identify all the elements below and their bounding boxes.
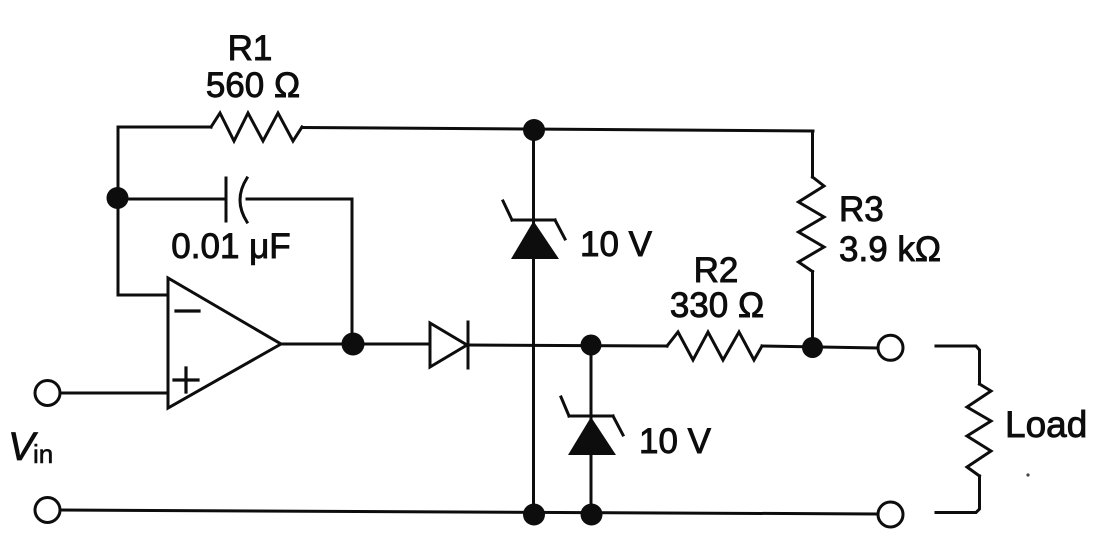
- svg-text:10 V: 10 V: [580, 225, 653, 264]
- svg-text:Load: Load: [1005, 404, 1087, 445]
- svg-text:3.9 kΩ: 3.9 kΩ: [839, 230, 941, 269]
- svg-text:R1: R1: [228, 29, 273, 68]
- svg-text:560 Ω: 560 Ω: [206, 66, 300, 105]
- svg-text:R3: R3: [839, 190, 884, 229]
- svg-text:0.01 μF: 0.01 μF: [171, 227, 290, 266]
- svg-text:330 Ω: 330 Ω: [670, 286, 764, 325]
- svg-text:R2: R2: [694, 251, 739, 290]
- svg-text:in: in: [33, 439, 53, 469]
- svg-text:10 V: 10 V: [639, 422, 712, 461]
